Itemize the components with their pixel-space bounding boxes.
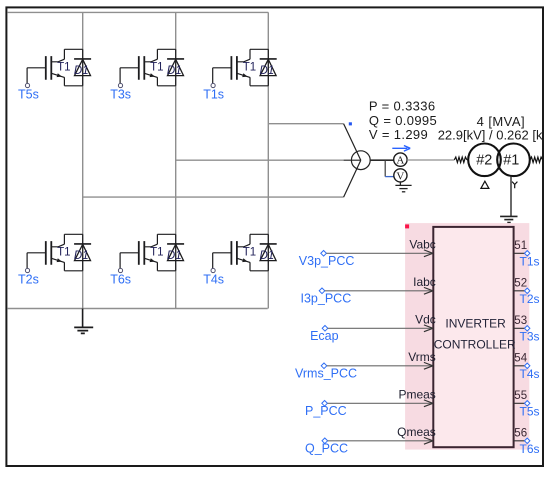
svg-text:P_PCC: P_PCC [305, 404, 347, 418]
output stub 55 / T5s [514, 390, 540, 419]
output stub 51 / T1s [514, 240, 540, 268]
IGBT valve T4s (T1 with antiparallel diode D1) [213, 234, 277, 270]
voltmeter V [385, 160, 407, 182]
svg-text:T1: T1 [243, 246, 256, 258]
node marker (blue square) [349, 122, 352, 125]
svg-text:Ecap: Ecap [310, 329, 339, 343]
wire: phase A output tap [268, 123, 343, 125]
svg-text:56: 56 [514, 427, 527, 439]
svg-text:T1: T1 [57, 246, 70, 258]
output stub 53 / T3s [514, 315, 540, 344]
wire: phase B output tap [176, 159, 344, 161]
svg-text:51: 51 [514, 240, 527, 252]
svg-text:T3s: T3s [110, 87, 131, 101]
signal source node I3p_PCC [301, 288, 352, 305]
svg-text:Vabc: Vabc [409, 238, 435, 252]
gate node T5s [18, 83, 39, 101]
svg-text:V: V [396, 170, 404, 182]
gate node T2s [18, 268, 39, 286]
svg-text:T2s: T2s [18, 272, 39, 286]
svg-text:T5s: T5s [520, 404, 540, 418]
svg-text:I3p_PCC: I3p_PCC [301, 291, 352, 305]
svg-text:V = 1.299: V = 1.299 [369, 127, 428, 142]
svg-text:52: 52 [514, 277, 527, 289]
wire Q_PCC to controller input Qmeas [328, 437, 433, 444]
signal source node V3p_PCC [299, 251, 355, 268]
svg-text:55: 55 [514, 390, 527, 402]
output stub 56 / T6s [514, 427, 540, 456]
meter readouts P Q V [369, 98, 437, 142]
3-phase breakout junction [344, 124, 371, 197]
selection handle (red square) [405, 224, 409, 228]
signal source node Q_PCC [305, 438, 348, 455]
svg-text:T4s: T4s [203, 272, 224, 286]
wire: DC positive bus [6, 11, 269, 13]
svg-text:T1s: T1s [520, 254, 540, 268]
gate node T4s [203, 268, 224, 286]
signal source node Vrms_PCC [295, 363, 357, 380]
svg-text:T6s: T6s [110, 272, 131, 286]
svg-text:Vdc: Vdc [415, 313, 436, 327]
svg-text:Qmeas: Qmeas [397, 425, 436, 439]
wire: phase leg rail 2 [175, 12, 177, 308]
svg-text:Iabc: Iabc [413, 275, 436, 289]
ground (voltmeter) [395, 182, 411, 192]
IGBT valve T5s (T1 with antiparallel diode D1) [27, 49, 91, 86]
wire: phase leg rail 1 [82, 12, 84, 308]
op block: INVERTER CONTROLLER U1 [433, 227, 516, 447]
svg-text:54: 54 [514, 352, 527, 364]
svg-text:22.9[kV] / 0.262 [kV]: 22.9[kV] / 0.262 [kV] [438, 128, 550, 143]
wire ammeter to transformer [407, 159, 454, 161]
ammeter A with flow arrow [392, 146, 410, 167]
svg-text:T4s: T4s [520, 367, 540, 381]
svg-text:T1: T1 [57, 61, 70, 73]
gate node T3s [110, 83, 131, 101]
IGBT valve T1s (T1 with antiparallel diode D1) [213, 49, 277, 86]
gate node T1s [203, 83, 224, 101]
wire transformer neutral [510, 176, 512, 216]
svg-text:Vrms_PCC: Vrms_PCC [295, 366, 357, 380]
ground (DC bus) [74, 309, 93, 334]
IGBT valve T2s (T1 with antiparallel diode D1) [27, 234, 91, 270]
IGBT valve T3s (T1 with antiparallel diode D1) [120, 49, 184, 86]
svg-text:Q_PCC: Q_PCC [305, 441, 348, 455]
svg-text:Vrms: Vrms [408, 350, 436, 364]
svg-text:T6s: T6s [520, 442, 540, 456]
wire to meters [370, 159, 394, 161]
svg-text:D1: D1 [74, 250, 89, 262]
inverter controller selection highlight [405, 223, 529, 450]
output stub 54 / T4s [514, 352, 540, 381]
svg-text:P = 0.3336: P = 0.3336 [369, 98, 436, 113]
svg-text:D1: D1 [260, 250, 275, 262]
svg-text:INVERTER: INVERTER [445, 317, 506, 331]
svg-text:#1: #1 [503, 152, 519, 168]
svg-text:T1: T1 [150, 61, 163, 73]
output stub 52 / T2s [514, 277, 540, 306]
svg-text:T2s: T2s [520, 292, 540, 306]
svg-text:T3s: T3s [520, 329, 540, 343]
svg-text:53: 53 [514, 315, 527, 327]
winding symbol delta [481, 181, 489, 188]
svg-text:D1: D1 [167, 65, 182, 77]
svg-text:D1: D1 [74, 65, 89, 77]
wire: phase leg rail 3 [267, 12, 269, 308]
transformer T1 two-winding #2/#1 [454, 144, 542, 177]
transformer rating labels [438, 114, 550, 143]
wire Ecap to controller input Vdc [328, 325, 433, 332]
wire P_PCC to controller input Pmeas [327, 400, 433, 407]
IGBT valve T6s (T1 with antiparallel diode D1) [120, 234, 184, 270]
signal source node Ecap [310, 326, 339, 343]
wire: phase C output tap [83, 196, 344, 198]
winding symbol wye [512, 182, 517, 189]
svg-text:T1: T1 [243, 61, 256, 73]
svg-text:D1: D1 [167, 250, 182, 262]
svg-text:D1: D1 [260, 65, 275, 77]
svg-text:#2: #2 [476, 152, 492, 168]
wire I3p_PCC to controller input Iabc [325, 287, 433, 294]
wire V3p_PCC to controller input Vabc [326, 250, 433, 257]
wire: DC negative bus [6, 308, 268, 310]
wire Vrms_PCC to controller input Vrms [327, 362, 433, 369]
svg-text:Pmeas: Pmeas [398, 388, 435, 402]
gate node T6s [110, 268, 131, 286]
ground (transformer neutral) [500, 216, 517, 222]
svg-text:T1: T1 [150, 246, 163, 258]
svg-text:CONTROLLER: CONTROLLER [434, 337, 516, 351]
svg-text:A: A [396, 155, 404, 167]
signal source node P_PCC [305, 401, 347, 418]
svg-text:T5s: T5s [18, 87, 39, 101]
svg-text:T1s: T1s [203, 87, 224, 101]
svg-text:Q = 0.0995: Q = 0.0995 [369, 113, 437, 128]
svg-text:V3p_PCC: V3p_PCC [299, 254, 355, 268]
